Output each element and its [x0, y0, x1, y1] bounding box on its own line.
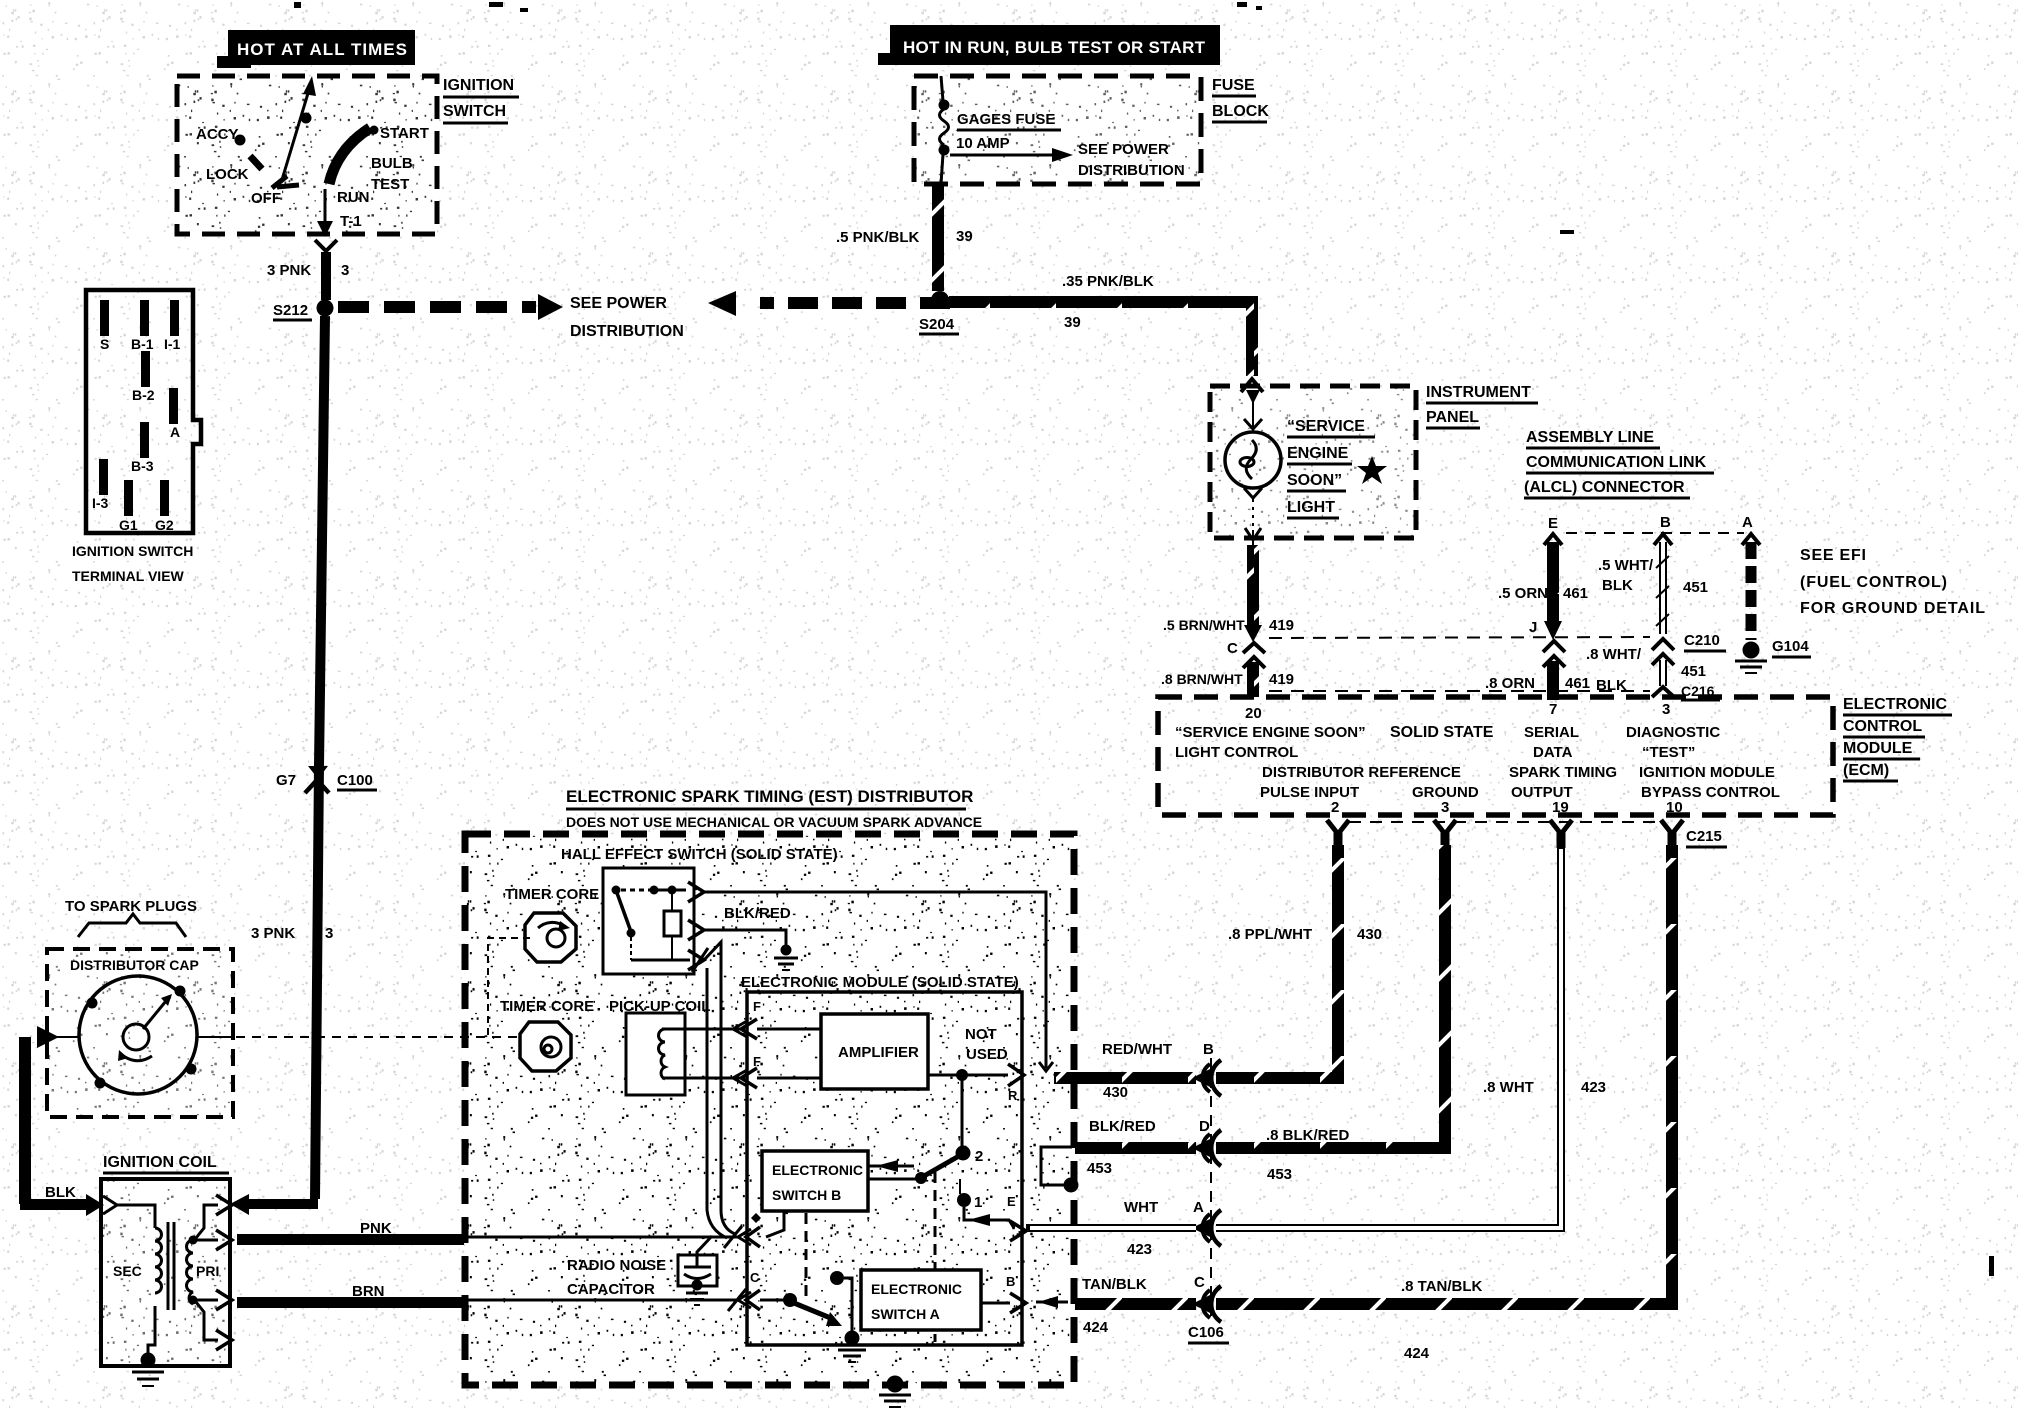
svg-text:PNK: PNK [360, 1220, 392, 1237]
svg-text:TIMER CORE: TIMER CORE [500, 998, 594, 1015]
EST distributor title [566, 787, 982, 830]
svg-text:IGNITION: IGNITION [443, 77, 514, 94]
coil pin chevrons [216, 1195, 232, 1350]
svg-text:USED: USED [966, 1046, 1008, 1063]
svg-text:SWITCH B: SWITCH B [772, 1187, 841, 1203]
svg-text:RED/WHT: RED/WHT [1102, 1041, 1172, 1058]
switch lever arm [272, 76, 316, 188]
ECM box [1158, 697, 1833, 815]
chevron at RED/WHT entry [1039, 1062, 1053, 1071]
timer core symbol (upper) [525, 913, 576, 962]
svg-text:.8 WHT: .8 WHT [1483, 1079, 1534, 1096]
svg-text:G1: G1 [119, 517, 138, 533]
terminal S [100, 300, 109, 352]
switch A input wire and lever [760, 1293, 842, 1326]
junction J [1529, 619, 1565, 667]
svg-text:CONTROL: CONTROL [1843, 718, 1922, 735]
svg-text:FUSE: FUSE [1212, 77, 1255, 94]
label RADIO NOISE CAPACITOR [567, 1257, 666, 1298]
contact above switch A to ground [830, 1271, 866, 1362]
bulb lower chevron and dotted wire [1244, 488, 1262, 545]
svg-text:PULSE INPUT: PULSE INPUT [1260, 784, 1359, 801]
svg-text:IGNITION MODULE: IGNITION MODULE [1639, 764, 1775, 781]
wire .8 ORN 461 [1485, 661, 1590, 700]
wire BRN [237, 1283, 464, 1308]
svg-text:LOCK: LOCK [206, 166, 249, 183]
svg-text:TEST: TEST [371, 176, 409, 193]
module pin F lower [733, 1054, 821, 1088]
module pin E [1007, 1194, 1026, 1241]
svg-text:LIGHT: LIGHT [1287, 499, 1335, 516]
svg-text:HOT AT ALL TIMES: HOT AT ALL TIMES [237, 40, 407, 59]
wire hall pin 1 to RED/WHT (reference) [704, 892, 1046, 1068]
fuse block box [914, 76, 1201, 184]
hall effect switch box [603, 868, 694, 974]
svg-text:SEE EFI: SEE EFI [1800, 547, 1866, 564]
svg-text:B: B [1006, 1274, 1015, 1289]
switch contact 2 [956, 1146, 984, 1166]
svg-text:451: 451 [1681, 663, 1706, 680]
svg-text:10: 10 [1666, 799, 1683, 816]
svg-text:453: 453 [1267, 1166, 1292, 1183]
SES bulb feed arrow [1244, 390, 1262, 429]
svg-text:START: START [380, 125, 429, 142]
svg-text:C100: C100 [337, 772, 373, 789]
wire BLK coil secondary to cap [20, 1037, 104, 1216]
svg-text:I-3: I-3 [92, 495, 109, 511]
svg-text:ELECTRONIC MODULE (SOLID STATE: ELECTRONIC MODULE (SOLID STATE) [741, 974, 1019, 991]
switch position START [370, 125, 429, 142]
svg-text:G7: G7 [276, 772, 296, 789]
svg-text:430: 430 [1357, 926, 1382, 943]
svg-text:ELECTRONIC SPARK TIMING (EST): ELECTRONIC SPARK TIMING (EST) DISTRIBUTO… [566, 787, 973, 806]
connector C100 chevrons [305, 766, 329, 793]
timer core symbol (lower) [520, 1022, 571, 1071]
ECM pin 3 diagnostic test [1626, 701, 1720, 761]
rotor [118, 994, 172, 1061]
switch position ACCY [196, 126, 246, 146]
svg-text:451: 451 [1683, 579, 1708, 596]
diamond tick [751, 1213, 761, 1223]
ECM pin 3 ground [1412, 784, 1479, 816]
svg-text:C: C [1227, 640, 1238, 657]
svg-text:453: 453 [1087, 1160, 1112, 1177]
svg-text:B-1: B-1 [131, 336, 154, 352]
svg-text:19: 19 [1552, 799, 1569, 816]
ECM pin 7 serial data [1524, 701, 1579, 761]
svg-text:RUN: RUN [337, 189, 370, 206]
ignition switch box [177, 76, 437, 234]
label ELECTRONIC CONTROL MODULE (ECM) [1843, 696, 1952, 781]
svg-text:B: B [1660, 514, 1671, 531]
ignition switch terminal view connector body [86, 290, 201, 533]
svg-text:423: 423 [1581, 1079, 1606, 1096]
stray mark right edge [1989, 1256, 1994, 1276]
speckle texture regions [467, 836, 1072, 1383]
svg-text:“SERVICE ENGINE SOON”: “SERVICE ENGINE SOON” [1175, 724, 1366, 741]
wire pin A to ground [1742, 534, 1760, 640]
terminal A [169, 388, 180, 440]
ECM pin 19 spark timing output [1509, 764, 1617, 816]
hatched RED/WHT stub into EST box [1054, 1072, 1196, 1084]
svg-text:C215: C215 [1686, 828, 1722, 845]
svg-text:DISTRIBUTION: DISTRIBUTION [1078, 162, 1185, 179]
terminal G1 [119, 480, 138, 533]
WHT wire stub from pin E [1026, 1224, 1196, 1232]
wire 3 PNK vertical run [315, 316, 325, 1199]
amplifier box [821, 1014, 928, 1089]
dashed line inside module (right) [934, 1172, 937, 1342]
svg-text:424: 424 [1083, 1319, 1109, 1336]
C106 connector at 430 wire [1102, 1041, 1221, 1101]
svg-text:BLK: BLK [45, 1184, 76, 1201]
svg-text:(FUEL CONTROL): (FUEL CONTROL) [1800, 574, 1947, 591]
svg-text:423: 423 [1127, 1241, 1152, 1258]
svg-text:IGNITION SWITCH: IGNITION SWITCH [72, 543, 193, 559]
svg-text:.5 WHT/: .5 WHT/ [1598, 557, 1654, 574]
module pin chevron (PNK entry) [746, 1227, 760, 1247]
dashed wire S204 to power distribution arrow [708, 291, 950, 316]
wire hall pin down (second) [707, 968, 727, 1238]
harness boundary dashed lines [1269, 637, 1650, 638]
ECM pin 20 SES light control [1175, 705, 1366, 761]
module ground (bottom edge) [879, 1376, 911, 1408]
SES bulb [1225, 432, 1281, 488]
svg-text:ELECTRONIC: ELECTRONIC [772, 1162, 863, 1178]
svg-text:3: 3 [341, 262, 349, 279]
svg-text:CAPACITOR: CAPACITOR [567, 1281, 655, 1298]
label FUSE BLOCK [1212, 77, 1269, 122]
label 3 PNK 3 [267, 262, 349, 279]
svg-text:J: J [1529, 619, 1537, 636]
svg-text:.8 TAN/BLK: .8 TAN/BLK [1401, 1278, 1483, 1295]
svg-text:SOON”: SOON” [1287, 472, 1342, 489]
dashed power feed arrow to SEE POWER DISTRIBUTION [338, 294, 563, 320]
transformer core [168, 1222, 174, 1310]
svg-text:.8 PPL/WHT: .8 PPL/WHT [1228, 926, 1312, 943]
svg-text:F: F [753, 999, 761, 1014]
svg-text:OFF: OFF [251, 190, 281, 207]
coil feed arrow into cap [37, 1026, 79, 1048]
distributor cap circle [79, 976, 197, 1094]
svg-text:PANEL: PANEL [1426, 409, 1479, 426]
terminal B-2 [132, 351, 155, 403]
svg-text:DISTRIBUTOR REFERENCE: DISTRIBUTOR REFERENCE [1262, 764, 1461, 781]
arrow into pin B from TAN/BLK [1036, 1296, 1068, 1308]
terminal G2 [155, 480, 174, 533]
label GAGES FUSE [957, 111, 1061, 130]
svg-text:“SERVICE: “SERVICE [1287, 418, 1365, 435]
svg-text:ELECTRONIC: ELECTRONIC [871, 1281, 962, 1297]
switch contact 1 and wire to pin E [957, 1193, 1014, 1228]
electronic module box [747, 992, 1022, 1345]
ECM pin 10 ignition module bypass control [1639, 764, 1780, 816]
svg-text:TO SPARK PLUGS: TO SPARK PLUGS [65, 898, 197, 915]
svg-text:.8 BRN/WHT: .8 BRN/WHT [1161, 671, 1243, 687]
hall switch pin chevrons [688, 882, 708, 972]
wire .8 BRN/WHT 419 [1161, 662, 1294, 697]
svg-text:S: S [100, 336, 109, 352]
ALCL pins E B A [1548, 514, 1753, 532]
svg-text:3 PNK: 3 PNK [267, 262, 311, 279]
svg-text:3: 3 [325, 925, 333, 942]
wire hall pin 3 down to pickup area [704, 942, 735, 1234]
svg-text:TAN/BLK: TAN/BLK [1082, 1276, 1147, 1293]
connector C216 [1652, 683, 1720, 700]
label ASSEMBLY LINE COMMUNICATION LINK (ALCL) CONNECTOR [1524, 429, 1714, 498]
svg-text:.35 PNK/BLK: .35 PNK/BLK [1062, 273, 1154, 290]
BRN thin wire inside EST [464, 1299, 740, 1302]
svg-text:SWITCH A: SWITCH A [871, 1306, 940, 1322]
svg-text:B-3: B-3 [131, 458, 154, 474]
svg-text:424: 424 [1404, 1345, 1430, 1362]
module pin R (not used) [1008, 1064, 1024, 1103]
svg-text:S204: S204 [919, 316, 955, 333]
connector chevron below ignition switch [315, 240, 337, 251]
svg-text:461: 461 [1563, 585, 1588, 602]
label C100 [337, 772, 377, 790]
wire .5 PNK/BLK 39 [836, 184, 973, 291]
wire .35 PNK/BLK 39 [949, 273, 1252, 376]
svg-text:B: B [1203, 1041, 1214, 1058]
C106 connector at 423 wire [1124, 1199, 1221, 1258]
svg-text:GAGES FUSE: GAGES FUSE [957, 111, 1055, 128]
switch B drive arrow [868, 1160, 914, 1172]
svg-text:ACCY: ACCY [196, 126, 239, 143]
tap from lever line to contact 1 [959, 1179, 961, 1194]
svg-text:.5 ORN: .5 ORN [1498, 585, 1548, 602]
connector C106 dashed boundary [1210, 1058, 1212, 1318]
wire .8 BLK/RED 453 [1216, 845, 1445, 1183]
dashed link timer core to rotor line [488, 938, 530, 1035]
svg-text:D: D [1199, 1118, 1210, 1135]
wire PNK [237, 1220, 464, 1245]
svg-text:BLK/RED: BLK/RED [1089, 1118, 1156, 1135]
wire switch A to pin B [981, 1302, 1010, 1305]
label SEE POWER DISTRIBUTION (fuse block) [1078, 141, 1185, 179]
radio noise capacitor [678, 1236, 717, 1305]
switch B lever [868, 1156, 959, 1184]
svg-text:DISTRIBUTION: DISTRIBUTION [570, 323, 684, 340]
svg-text:SERIAL: SERIAL [1524, 724, 1579, 741]
connector C215 chevrons [1327, 820, 1727, 848]
note SEE EFI FOR GROUND DETAIL [1800, 547, 1985, 617]
rotor to EST dashed link [197, 1036, 520, 1038]
svg-text:2: 2 [975, 1148, 983, 1165]
wire .5 ORN 461 (pin E) [1498, 534, 1588, 640]
svg-text:IGNITION COIL: IGNITION COIL [103, 1154, 217, 1171]
distributor cap box [47, 949, 233, 1117]
svg-text:E: E [1548, 515, 1558, 532]
svg-text:BLOCK: BLOCK [1212, 103, 1269, 120]
wire hall pin 2 to ground [704, 930, 798, 970]
module pin C (BRN entry) [728, 1270, 760, 1311]
ignition coil box [101, 1179, 230, 1366]
hatched BLK/RED stub [1075, 1142, 1196, 1154]
connector chevron above instrument panel [1241, 379, 1263, 392]
svg-text:DOES NOT USE MECHANICAL OR VAC: DOES NOT USE MECHANICAL OR VACUUM SPARK … [566, 814, 982, 830]
C106 connector at 453 wire [1087, 1118, 1221, 1177]
svg-text:DIAGNOSTIC: DIAGNOSTIC [1626, 724, 1720, 741]
arrow to see power distribution [950, 148, 1073, 162]
svg-text:10 AMP: 10 AMP [956, 135, 1010, 152]
svg-text:ELECTRONIC: ELECTRONIC [1843, 696, 1947, 713]
ECM pin 2 distributor reference pulse input [1260, 764, 1461, 816]
svg-text:20: 20 [1245, 705, 1262, 722]
electronic switch A box [861, 1270, 981, 1330]
caption IGNITION SWITCH TERMINAL VIEW [72, 543, 193, 584]
wire 3 PNK elbow into ignition coil [230, 1194, 318, 1215]
pick-up coil box [626, 1013, 685, 1095]
gages fuse element [939, 76, 950, 184]
453 internal jog and junction dot [1041, 1147, 1072, 1185]
svg-text:(ALCL) CONNECTOR: (ALCL) CONNECTOR [1524, 479, 1685, 496]
wire 3 PNK (top) [321, 252, 331, 300]
connector C210 [1652, 632, 1726, 665]
wire .8 WHT/BLK 451 to C216 [1586, 646, 1706, 694]
svg-text:A: A [170, 424, 180, 440]
svg-text:R: R [1008, 1088, 1018, 1103]
wire .8 TAN/BLK 424 [1216, 845, 1672, 1362]
PNK thin wire inside EST [464, 1236, 740, 1239]
coil internals PRI winding [187, 1205, 220, 1340]
electronic switch B box [762, 1151, 868, 1211]
svg-text:430: 430 [1103, 1084, 1128, 1101]
svg-text:SOLID STATE: SOLID STATE [1390, 724, 1494, 741]
svg-text:HOT IN RUN, BULB TEST OR START: HOT IN RUN, BULB TEST OR START [903, 38, 1206, 57]
svg-text:INSTRUMENT: INSTRUMENT [1426, 384, 1531, 401]
svg-text:BLK/RED: BLK/RED [724, 905, 791, 922]
svg-text:HALL EFFECT SWITCH (SOLID STAT: HALL EFFECT SWITCH (SOLID STATE) [561, 846, 838, 863]
svg-text:BYPASS CONTROL: BYPASS CONTROL [1641, 784, 1780, 801]
svg-text:A: A [1193, 1199, 1204, 1216]
ground G104 [1735, 638, 1811, 673]
switch position LOCK [206, 156, 262, 183]
label SEE POWER DISTRIBUTION (left) [570, 295, 684, 340]
star symbol [1357, 456, 1387, 484]
svg-text:AMPLIFIER: AMPLIFIER [838, 1044, 919, 1061]
C106 connector at 424 wire [1082, 1274, 1229, 1343]
svg-text:TIMER CORE: TIMER CORE [505, 886, 599, 903]
svg-text:T-1: T-1 [340, 213, 362, 230]
svg-text:BRN: BRN [352, 1283, 385, 1300]
svg-text:RADIO NOISE: RADIO NOISE [567, 1257, 666, 1274]
module pin F upper [733, 999, 821, 1039]
connector C (IP to engine harness) [1227, 640, 1265, 668]
terminal B-1 [131, 300, 154, 352]
svg-text:SEE POWER: SEE POWER [1078, 141, 1169, 158]
amplifier output wire and node [928, 1069, 1008, 1081]
svg-text:461: 461 [1565, 675, 1590, 692]
label NOT USED [965, 1026, 1008, 1063]
svg-text:.8 WHT/: .8 WHT/ [1586, 646, 1642, 663]
svg-text:WHT: WHT [1124, 1199, 1158, 1216]
svg-text:G2: G2 [155, 517, 174, 533]
terminal I-3 [92, 459, 109, 511]
svg-text:FOR GROUND DETAIL: FOR GROUND DETAIL [1800, 600, 1985, 617]
svg-text:NOT: NOT [965, 1026, 997, 1043]
svg-text:S212: S212 [273, 302, 308, 319]
label IGNITION COIL [103, 1154, 229, 1173]
svg-text:39: 39 [1064, 314, 1081, 331]
wire .5 WHT/BLK 451 (pin B) [1598, 534, 1708, 634]
dashed line inside module (left) [805, 1213, 808, 1300]
svg-text:.5 BRN/WHT: .5 BRN/WHT [1163, 617, 1245, 633]
svg-text:419: 419 [1269, 617, 1294, 634]
wire RUN to T-1 arrow [317, 189, 333, 237]
coil internals SEC winding [103, 1196, 162, 1356]
svg-text:3 PNK: 3 PNK [251, 925, 295, 942]
svg-text:(ECM): (ECM) [1843, 762, 1889, 779]
svg-text:BULB: BULB [371, 155, 413, 172]
wire .8 WHT 423 [1216, 845, 1606, 1228]
switch position BULB TEST [371, 155, 413, 193]
svg-text:“TEST”: “TEST” [1642, 744, 1695, 761]
svg-text:SWITCH: SWITCH [443, 103, 506, 120]
switch contact arc RUN to START [329, 128, 370, 184]
instrument panel box [1210, 386, 1416, 538]
wire amplifier node down to switch contact 2 [961, 1075, 964, 1148]
svg-text:G104: G104 [1772, 638, 1809, 655]
svg-text:COMMUNICATION LINK: COMMUNICATION LINK [1526, 454, 1707, 471]
ALCL dashed outline [1566, 532, 1744, 534]
svg-text:3: 3 [1662, 701, 1670, 718]
module pin B [1006, 1274, 1026, 1313]
hall switch internals [612, 886, 691, 961]
svg-text:1: 1 [974, 1194, 982, 1211]
svg-text:39: 39 [956, 228, 973, 245]
svg-text:B-2: B-2 [132, 387, 155, 403]
label IGNITION SWITCH [443, 77, 519, 123]
svg-text:BLK: BLK [1596, 677, 1627, 694]
wire .8 PPL/WHT 430 [1216, 845, 1382, 1078]
svg-text:BLK: BLK [1602, 577, 1633, 594]
label SERVICE ENGINE SOON LIGHT [1287, 418, 1375, 518]
svg-text:2: 2 [1331, 799, 1339, 816]
svg-text:3: 3 [1441, 799, 1449, 816]
svg-text:DATA: DATA [1533, 744, 1573, 761]
label 3 PNK 3 (middle) [251, 925, 333, 942]
banner HOT AT ALL TIMES [217, 30, 415, 68]
svg-text:.8 BLK/RED: .8 BLK/RED [1266, 1127, 1350, 1144]
terminal B-3 [131, 422, 154, 474]
svg-text:C: C [1194, 1274, 1205, 1291]
pick-up coil winding [659, 1029, 746, 1079]
terminal I-1 [164, 300, 181, 352]
EST distributor box [465, 834, 1074, 1385]
wire .5 BRN/WHT 419 [1163, 545, 1294, 642]
splice S212 [273, 300, 334, 321]
hatched TAN/BLK stub [1075, 1298, 1196, 1310]
svg-text:.8 ORN: .8 ORN [1485, 675, 1535, 692]
svg-text:C106: C106 [1188, 1324, 1224, 1341]
svg-text:I-1: I-1 [164, 336, 181, 352]
svg-text:SPARK TIMING: SPARK TIMING [1509, 764, 1617, 781]
wire switch B to pin C (PNK) [766, 1211, 784, 1237]
svg-text:DISTRIBUTOR CAP: DISTRIBUTOR CAP [70, 957, 199, 973]
svg-text:LIGHT CONTROL: LIGHT CONTROL [1175, 744, 1298, 761]
svg-text:C210: C210 [1684, 632, 1720, 649]
svg-text:F: F [753, 1054, 761, 1069]
svg-text:A: A [1742, 514, 1753, 531]
svg-text:SEC: SEC [113, 1263, 142, 1279]
banner HOT IN RUN BULB TEST OR START [878, 25, 1220, 65]
svg-text:419: 419 [1269, 671, 1294, 688]
svg-text:C: C [750, 1270, 760, 1285]
svg-text:7: 7 [1549, 701, 1557, 718]
svg-text:ASSEMBLY LINE: ASSEMBLY LINE [1526, 429, 1654, 446]
svg-text:MODULE: MODULE [1843, 740, 1913, 757]
